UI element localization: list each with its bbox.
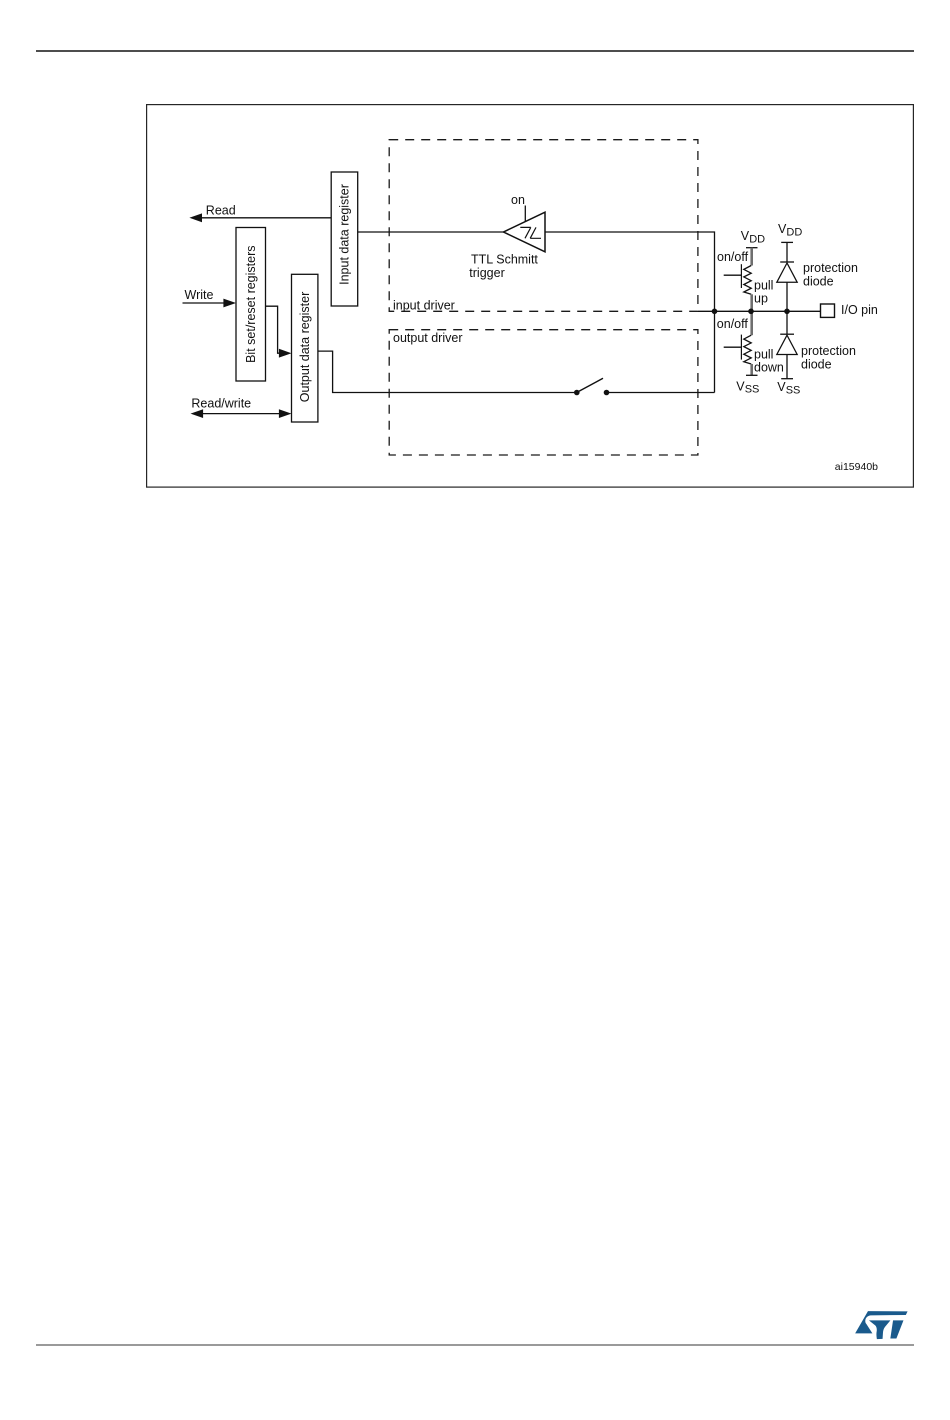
svg-text:up: up (754, 292, 768, 306)
node dots on pin line (712, 309, 718, 315)
register: Bit set/reset registers (236, 228, 266, 382)
TTL Schmitt trigger triangle (504, 212, 546, 252)
protection diode (to VDD) (786, 242, 788, 262)
register: Input data register (331, 172, 358, 306)
resistor pull-down (750, 311, 753, 335)
dashed box: input driver (389, 140, 698, 312)
svg-text:output driver: output driver (393, 331, 462, 345)
wire input data register to schmitt output (358, 231, 504, 233)
svg-text:DD: DD (749, 233, 765, 245)
svg-text:protection: protection (803, 261, 858, 275)
wire to I/O pin (698, 310, 821, 312)
svg-text:Bit set/reset registers: Bit set/reset registers (244, 245, 258, 362)
bottom rule (36, 1344, 914, 1346)
svg-text:pull: pull (754, 348, 773, 362)
svg-text:SS: SS (745, 384, 760, 396)
resistor pull-up (750, 248, 753, 266)
top rule (36, 50, 914, 52)
svg-text:on: on (511, 193, 525, 207)
wire output data register to switch (318, 351, 577, 392)
svg-text:I/O pin: I/O pin (841, 303, 878, 317)
I/O pin square (821, 304, 835, 317)
svg-text:SS: SS (786, 385, 801, 397)
wire Read/write double arrow (201, 413, 281, 415)
svg-text:Read: Read (206, 204, 236, 218)
wire schmitt input from pin column (545, 232, 715, 393)
wire Write arrow (183, 302, 226, 304)
svg-text:ai15940b: ai15940b (835, 461, 878, 473)
svg-text:pull: pull (754, 278, 773, 292)
dashed box: output driver (389, 330, 698, 455)
wire Read arrow (201, 217, 331, 219)
ST logo (852, 1306, 912, 1346)
protection diode (to VSS) (786, 311, 788, 334)
svg-text:TTL Schmitt: TTL Schmitt (471, 252, 538, 266)
svg-text:DD: DD (786, 226, 802, 238)
svg-text:down: down (754, 361, 784, 375)
svg-text:Input data register: Input data register (338, 184, 352, 285)
svg-text:Write: Write (185, 288, 214, 302)
svg-text:trigger: trigger (469, 266, 504, 280)
svg-text:on/off: on/off (717, 250, 749, 264)
svg-text:Output data register: Output data register (298, 292, 312, 402)
hysteresis symbol (520, 227, 541, 238)
register: Output data register (292, 274, 318, 422)
svg-text:protection: protection (801, 344, 856, 358)
wire bit-set/reset to output data register (266, 306, 282, 353)
svg-text:diode: diode (803, 275, 834, 289)
svg-text:on/off: on/off (717, 317, 749, 331)
figure: GPIO basic structure schematic (146, 104, 915, 489)
output switch (574, 390, 580, 396)
svg-text:diode: diode (801, 358, 832, 372)
svg-text:Read/write: Read/write (191, 397, 251, 411)
svg-text:input driver: input driver (393, 298, 455, 312)
